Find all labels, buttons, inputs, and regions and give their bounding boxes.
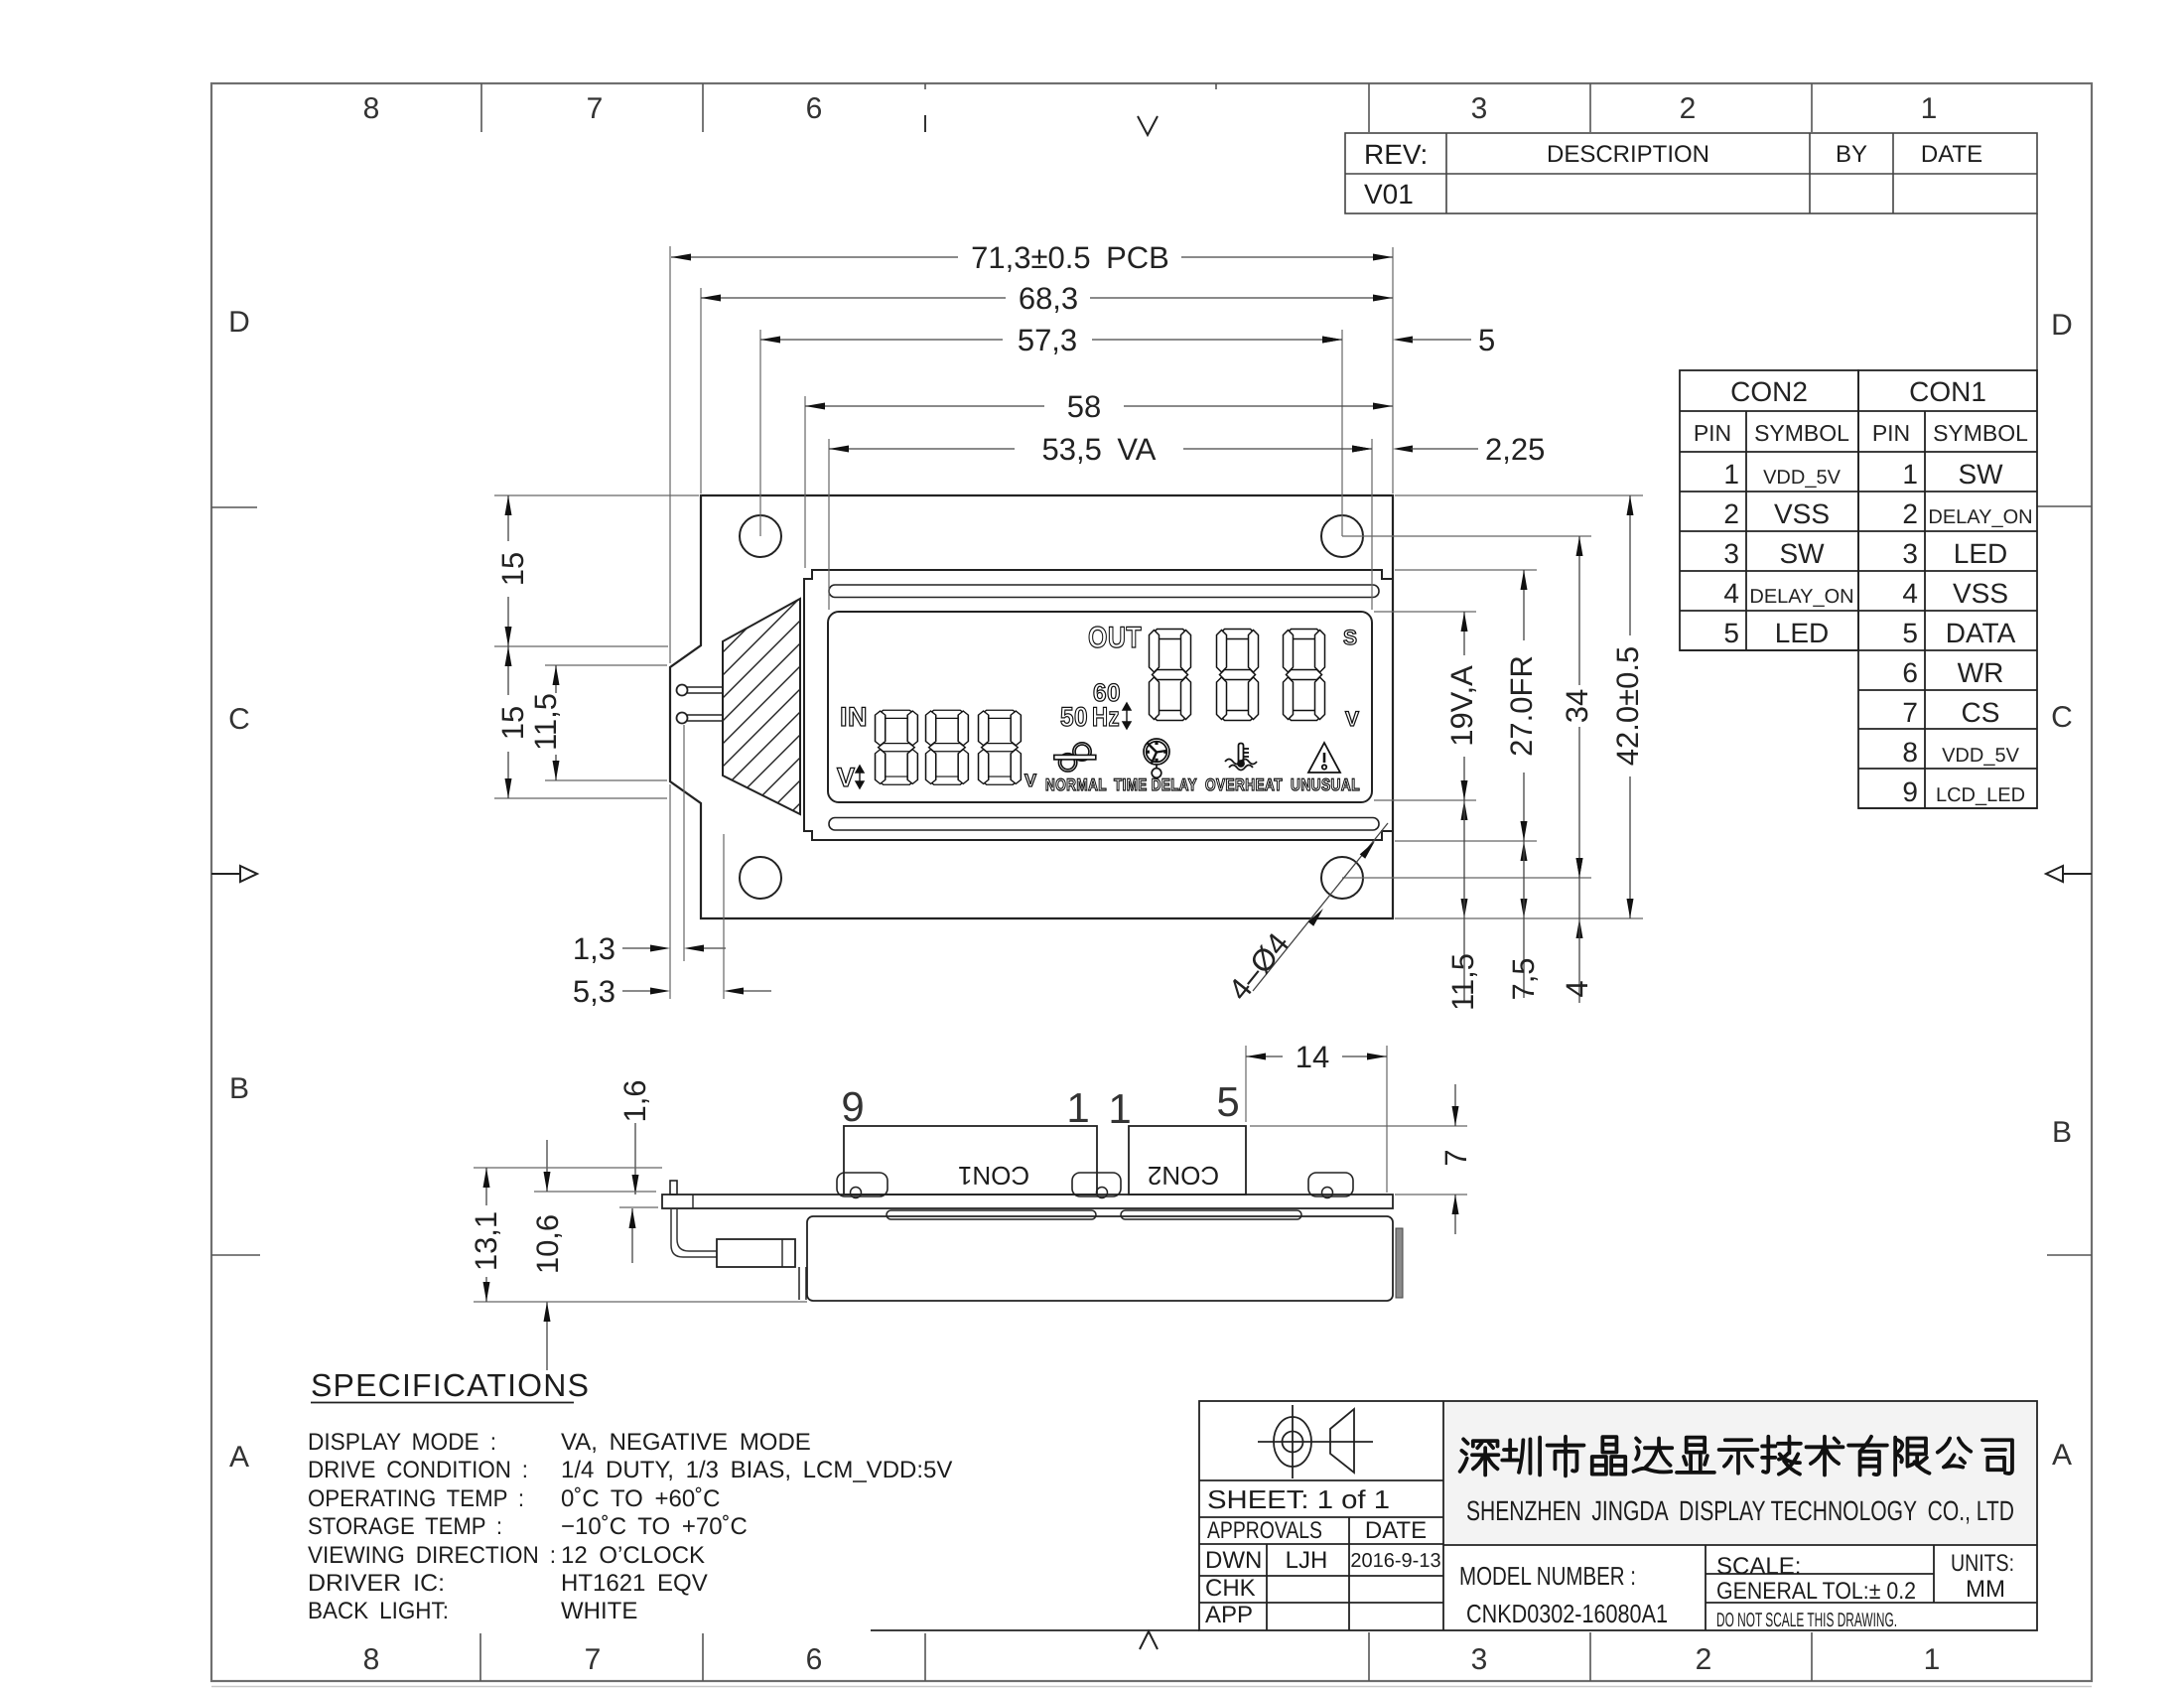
svg-text:6: 6	[806, 1643, 823, 1676]
svg-text:50: 50	[1060, 702, 1088, 732]
svg-text:OUT: OUT	[1088, 622, 1142, 654]
dim 5	[1322, 337, 1342, 344]
dim 53,5 VA	[829, 448, 1015, 450]
svg-text:CS: CS	[1962, 697, 2000, 728]
svg-text:CON1: CON1	[1909, 376, 1986, 407]
dim 34	[1578, 536, 1580, 685]
svg-text:6: 6	[806, 92, 823, 125]
svg-text:7: 7	[1438, 1149, 1473, 1166]
svg-text:9: 9	[841, 1083, 864, 1130]
svg-text:2,25: 2,25	[1485, 432, 1545, 467]
NORMAL icon (breaker)	[1054, 743, 1096, 772]
svg-text:5: 5	[1478, 323, 1495, 357]
svg-text:OPERATING TEMP :: OPERATING TEMP :	[308, 1485, 524, 1512]
extension lines left dims	[494, 494, 699, 496]
svg-text:LCD_LED: LCD_LED	[1936, 784, 2025, 806]
svg-text:1: 1	[1723, 459, 1739, 490]
svg-text:C: C	[2051, 701, 2073, 734]
svg-text:6: 6	[1902, 657, 1918, 688]
svg-text:SYMBOL: SYMBOL	[1933, 420, 2028, 446]
dim 11,5 right	[1461, 800, 1468, 820]
svg-text:UNITS:: UNITS:	[1951, 1550, 2014, 1577]
svg-text:15: 15	[495, 706, 530, 740]
svg-text:VSS: VSS	[1774, 498, 1830, 529]
svg-text:IN: IN	[840, 702, 868, 732]
zone divider ticks top	[480, 83, 482, 132]
svg-text:4: 4	[1723, 578, 1739, 609]
backlight pins	[677, 685, 688, 696]
dim 1,6	[619, 1206, 658, 1208]
svg-text:8: 8	[1902, 737, 1918, 768]
svg-text:58: 58	[1067, 389, 1101, 424]
V mark top center	[1138, 116, 1158, 135]
svg-text:5: 5	[1902, 618, 1918, 648]
svg-text:MM: MM	[1966, 1576, 2005, 1603]
dim 14	[1245, 1046, 1247, 1122]
svg-text:2: 2	[1696, 1643, 1712, 1676]
svg-text:CON2: CON2	[1730, 376, 1808, 407]
IN 7-segment digits 888	[876, 710, 918, 784]
svg-text:PIN: PIN	[1694, 420, 1731, 446]
dim 7,5	[1521, 841, 1528, 861]
svg-text:A: A	[229, 1441, 249, 1474]
svg-text:DELAY_ON: DELAY_ON	[1749, 586, 1853, 608]
svg-text:VDD_5V: VDD_5V	[1763, 467, 1841, 489]
dim 15 upper	[507, 495, 509, 541]
dim 7	[1250, 1125, 1467, 1127]
svg-text:BY: BY	[1836, 141, 1867, 168]
svg-text:REV:: REV:	[1364, 139, 1428, 170]
svg-text:3: 3	[1723, 538, 1739, 569]
svg-text:VIEWING DIRECTION :: VIEWING DIRECTION :	[308, 1542, 556, 1569]
svg-text:14: 14	[1296, 1040, 1329, 1074]
leader 4-phi4	[1253, 823, 1388, 991]
side view CON1 body	[844, 1126, 1097, 1195]
svg-text:SHENZHEN JINGDA DISPLAY TECHNO: SHENZHEN JINGDA DISPLAY TECHNOLOGY CO., …	[1466, 1495, 2014, 1526]
svg-text:27.0FR: 27.0FR	[1504, 655, 1539, 757]
svg-text:SW: SW	[1958, 459, 2003, 490]
side view PCB bar	[662, 1195, 1393, 1208]
svg-text:2016-9-13: 2016-9-13	[1350, 1550, 1440, 1572]
hatched connector wedge	[723, 599, 800, 814]
svg-text:CON2: CON2	[1148, 1161, 1219, 1191]
svg-text:VSS: VSS	[1953, 578, 2008, 609]
svg-text:11,5: 11,5	[528, 693, 563, 751]
svg-text:1: 1	[1066, 1084, 1089, 1131]
company name chinese	[1460, 1437, 2012, 1477]
side view glass edge bar	[1396, 1228, 1403, 1298]
dim 10,6	[534, 1191, 656, 1193]
svg-text:GENERAL TOL:± 0.2: GENERAL TOL:± 0.2	[1716, 1578, 1916, 1605]
svg-text:CON1: CON1	[958, 1161, 1029, 1191]
zone divider ticks bottom	[479, 1633, 481, 1681]
svg-text:11,5: 11,5	[1445, 953, 1480, 1011]
dim 68,3	[701, 297, 1006, 299]
svg-text:2: 2	[1680, 92, 1697, 125]
svg-text:53,5 VA: 53,5 VA	[1042, 432, 1157, 467]
connector feet	[837, 1173, 887, 1196]
top zebra slot	[829, 585, 1379, 598]
OVERHEAT icon (thermometer in waves)	[1225, 744, 1257, 771]
svg-text:−10˚C TO +70˚C: −10˚C TO +70˚C	[561, 1513, 748, 1540]
extension lines right dims	[1374, 611, 1476, 613]
dim 42.0±0.5	[1629, 495, 1631, 635]
svg-text:5: 5	[1723, 618, 1739, 648]
bottom zebra slot	[829, 818, 1379, 831]
svg-text:DRIVE CONDITION :: DRIVE CONDITION :	[308, 1457, 528, 1483]
svg-text:LJH: LJH	[1286, 1547, 1328, 1574]
side view pin nub	[670, 1181, 677, 1195]
TIME DELAY icon (clock)	[1144, 739, 1169, 777]
svg-text:3: 3	[1902, 538, 1918, 569]
display window (VA area)	[828, 612, 1372, 802]
svg-text:9: 9	[1902, 776, 1918, 807]
svg-text:S: S	[1343, 627, 1358, 649]
dim 71,3±0.5 PCB	[671, 256, 958, 258]
svg-text:DATA: DATA	[1946, 618, 2016, 648]
svg-text:8: 8	[363, 1643, 380, 1676]
svg-text:2: 2	[1723, 498, 1739, 529]
svg-text:71,3±0.5 PCB: 71,3±0.5 PCB	[971, 240, 1169, 275]
svg-text:VDD_5V: VDD_5V	[1942, 745, 2019, 767]
svg-text:DO NOT SCALE THIS DRAWING.: DO NOT SCALE THIS DRAWING.	[1716, 1610, 1897, 1631]
svg-text:PIN: PIN	[1872, 420, 1910, 446]
svg-text:VA, NEGATIVE MODE: VA, NEGATIVE MODE	[561, 1429, 811, 1456]
OUT 7-segment digits 888	[1150, 630, 1191, 721]
svg-text:1: 1	[1108, 1085, 1131, 1132]
PCB outline front view	[670, 495, 1393, 918]
svg-text:V01: V01	[1364, 179, 1414, 210]
side view wire connector	[717, 1239, 795, 1267]
svg-text:B: B	[229, 1072, 249, 1105]
svg-text:Hz: Hz	[1092, 702, 1120, 732]
svg-text:DRIVER IC:: DRIVER IC:	[308, 1570, 445, 1597]
svg-text:V: V	[1345, 708, 1360, 731]
svg-text:DISPLAY MODE :: DISPLAY MODE :	[308, 1429, 496, 1456]
caret mark bottom center	[1140, 1631, 1158, 1649]
svg-text:SW: SW	[1779, 538, 1825, 569]
svg-text:V: V	[1024, 771, 1037, 790]
svg-text:34: 34	[1560, 689, 1594, 723]
svg-text:57,3: 57,3	[1018, 323, 1077, 357]
third angle projection symbol	[1258, 1405, 1373, 1478]
dim 2,25	[1352, 446, 1372, 453]
svg-text:CHK: CHK	[1205, 1575, 1256, 1602]
dim 5,3	[723, 834, 725, 999]
svg-text:NORMAL: NORMAL	[1045, 775, 1107, 794]
svg-text:3: 3	[1471, 92, 1488, 125]
svg-text:5: 5	[1216, 1078, 1239, 1125]
svg-text:B: B	[2052, 1116, 2072, 1149]
svg-text:C: C	[228, 703, 250, 736]
svg-text:1/4 DUTY, 1/3 BIAS, LCM_VDD:5V: 1/4 DUTY, 1/3 BIAS, LCM_VDD:5V	[561, 1457, 952, 1483]
svg-text:CNKD0302-16080A1: CNKD0302-16080A1	[1466, 1599, 1668, 1628]
dim 19V,A	[1463, 612, 1465, 655]
svg-text:4: 4	[1560, 980, 1594, 997]
svg-text:1: 1	[1924, 1643, 1941, 1676]
extension lines top dims	[669, 246, 671, 663]
dim 4	[1576, 858, 1583, 878]
zone divider ticks right	[2037, 505, 2092, 507]
side view backlight wire	[671, 1208, 717, 1257]
svg-text:D: D	[228, 306, 250, 339]
svg-text:1: 1	[1921, 92, 1938, 125]
svg-text:WHITE: WHITE	[561, 1598, 637, 1624]
svg-text:DWN: DWN	[1205, 1547, 1262, 1574]
svg-text:DATE: DATE	[1365, 1517, 1427, 1544]
svg-text:MODEL NUMBER :: MODEL NUMBER :	[1459, 1561, 1636, 1591]
svg-text:DATE: DATE	[1921, 141, 1982, 168]
revision table	[1345, 133, 2037, 370]
dim 58	[805, 405, 1044, 407]
svg-text:7: 7	[1902, 697, 1918, 728]
dim 1,3	[683, 725, 685, 961]
svg-text:OVERHEAT: OVERHEAT	[1205, 775, 1283, 794]
svg-text:42.0±0.5: 42.0±0.5	[1610, 646, 1645, 766]
svg-text:APPROVALS: APPROVALS	[1207, 1517, 1322, 1544]
svg-text:BACK LIGHT:: BACK LIGHT:	[308, 1598, 449, 1624]
svg-text:7,5: 7,5	[1506, 957, 1541, 1000]
svg-text:SYMBOL: SYMBOL	[1754, 420, 1849, 446]
svg-text:DELAY_ON: DELAY_ON	[1928, 506, 2032, 528]
svg-text:1,6: 1,6	[617, 1079, 652, 1122]
centering arrow left	[211, 873, 240, 875]
svg-text:19V,A: 19V,A	[1444, 665, 1479, 747]
dim 27.0FR	[1523, 570, 1525, 640]
svg-text:10,6: 10,6	[530, 1214, 565, 1274]
svg-text:12 O’CLOCK: 12 O’CLOCK	[561, 1542, 705, 1569]
svg-text:SHEET: 1 of 1: SHEET: 1 of 1	[1207, 1484, 1390, 1514]
centering arrow right	[2063, 873, 2092, 875]
svg-text:0˚C TO +60˚C: 0˚C TO +60˚C	[561, 1485, 721, 1512]
dim 15 lower	[507, 646, 509, 695]
svg-text:V: V	[837, 763, 856, 792]
svg-text:DESCRIPTION: DESCRIPTION	[1547, 141, 1709, 168]
svg-text:7: 7	[587, 92, 604, 125]
UNUSUAL icon (warning triangle)	[1308, 743, 1340, 773]
svg-text:LED: LED	[1954, 538, 2007, 569]
svg-text:3: 3	[1471, 1643, 1488, 1676]
side view CON2 body	[1129, 1126, 1246, 1195]
zone divider ticks left	[211, 506, 257, 508]
svg-text:7: 7	[585, 1643, 602, 1676]
svg-text:APP: APP	[1205, 1602, 1253, 1628]
svg-text:68,3: 68,3	[1019, 281, 1078, 316]
svg-text:LED: LED	[1775, 618, 1829, 648]
dim 13,1	[474, 1167, 662, 1169]
title block	[1443, 1402, 2036, 1545]
svg-text:D: D	[2051, 309, 2073, 342]
svg-text:4: 4	[1902, 578, 1918, 609]
svg-text:A: A	[2052, 1439, 2072, 1472]
svg-text:UNUSUAL: UNUSUAL	[1291, 775, 1360, 794]
svg-text:STORAGE TEMP :: STORAGE TEMP :	[308, 1513, 502, 1540]
svg-text:1: 1	[1902, 459, 1918, 490]
mounting holes 4x	[740, 515, 781, 557]
svg-text:SPECIFICATIONS: SPECIFICATIONS	[311, 1367, 590, 1403]
LCD metal bezel	[804, 570, 1393, 840]
svg-text:15: 15	[495, 552, 530, 586]
side view LCD module below	[807, 1216, 1393, 1301]
svg-text:TIME DELAY: TIME DELAY	[1114, 775, 1197, 794]
svg-text:2: 2	[1902, 498, 1918, 529]
svg-text:SCALE:: SCALE:	[1716, 1553, 1801, 1580]
svg-text:1,3: 1,3	[573, 931, 615, 966]
svg-text:13,1: 13,1	[469, 1211, 503, 1271]
svg-text:5,3: 5,3	[573, 974, 615, 1009]
dim 11,5	[555, 665, 557, 693]
svg-text:8: 8	[363, 92, 380, 125]
svg-text:WR: WR	[1958, 657, 2004, 688]
svg-text:HT1621 EQV: HT1621 EQV	[561, 1570, 708, 1597]
dim 57,3	[760, 339, 1003, 341]
connector pin tables CON2 / CON1	[1680, 370, 2037, 808]
